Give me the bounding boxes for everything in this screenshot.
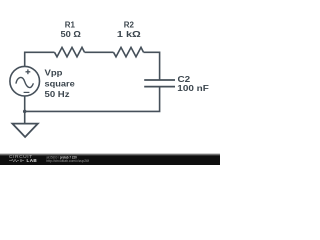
svg-text:50 Ω: 50 Ω [61,29,82,39]
svg-text:50 Hz: 50 Hz [45,89,70,99]
wire R1 to R2 [85,51,114,53]
svg-text:LAB: LAB [27,158,38,163]
svg-text:http://circuitlab.com/c/zup26f: http://circuitlab.com/c/zup26f [46,159,89,163]
voltage source plus sign [26,69,31,74]
wire R2 to C2 top [144,52,160,80]
resistor R2 [114,47,144,56]
svg-text:square: square [45,79,76,89]
capacitor C2 plates [144,80,175,87]
svg-text:100 nF: 100 nF [177,83,209,93]
voltage source V1 circle [10,66,40,96]
svg-text:1 kΩ: 1 kΩ [117,29,141,39]
voltage source sine wave [16,77,34,87]
resistor R1 [55,47,85,56]
wire C2 bottom to bottom rail [25,87,160,112]
ground symbol [12,124,37,137]
wire source bottom to ground [24,96,26,124]
voltage source minus sign [24,91,30,93]
junction dot node [23,110,27,114]
wire: source top to R1 (top-left rail) [25,52,55,67]
svg-text:Vpp: Vpp [45,67,63,77]
CircuitLab logo squiggle [9,159,24,162]
